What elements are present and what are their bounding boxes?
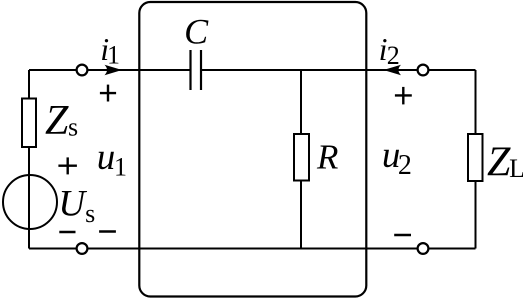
capacitor C plates — [191, 50, 202, 90]
label u1 — [97, 137, 127, 182]
terminal bottom-left — [77, 243, 88, 254]
svg-text:C: C — [184, 12, 209, 52]
u1 plus sign — [100, 85, 116, 102]
terminal top-left — [77, 65, 88, 76]
svg-text:s: s — [68, 112, 78, 141]
label i2 — [379, 31, 400, 70]
svg-text:2: 2 — [387, 41, 400, 70]
svg-text:U: U — [58, 184, 87, 225]
wire top rail left (source to capacitor) — [29, 69, 191, 71]
wire resistor branch — [300, 70, 302, 249]
current arrow i1 — [105, 65, 123, 75]
terminal top-right — [418, 65, 429, 76]
wire left rail — [28, 70, 30, 249]
source minus sign — [59, 231, 75, 233]
wire bottom rail — [29, 248, 476, 250]
u2 plus sign — [395, 87, 412, 105]
svg-text:R: R — [316, 138, 338, 177]
current arrow i2 — [384, 65, 402, 75]
label i1 — [100, 31, 120, 69]
svg-text:Z: Z — [45, 98, 69, 144]
source U_s circle — [3, 175, 57, 229]
svg-text:L: L — [509, 154, 523, 183]
terminal bottom-right — [418, 243, 429, 254]
label U_s — [58, 184, 95, 229]
load Z_L body — [468, 134, 483, 181]
svg-text:u: u — [97, 137, 116, 178]
svg-text:2: 2 — [398, 150, 412, 181]
svg-text:Z: Z — [487, 139, 511, 185]
wire top rail right (capacitor to load) — [201, 69, 476, 71]
svg-text:s: s — [85, 199, 95, 228]
resistor R body — [294, 134, 309, 181]
svg-text:1: 1 — [107, 40, 120, 69]
u1 minus sign — [99, 230, 116, 232]
label Z_L — [487, 139, 523, 185]
label u2 — [382, 135, 412, 181]
label Z_s — [45, 98, 78, 144]
two-port network box — [139, 2, 366, 297]
wire right rail — [475, 70, 477, 249]
u2 minus sign — [394, 234, 411, 236]
svg-text:1: 1 — [114, 153, 127, 182]
source plus sign — [58, 157, 77, 174]
impedance Z_s body — [22, 99, 36, 148]
